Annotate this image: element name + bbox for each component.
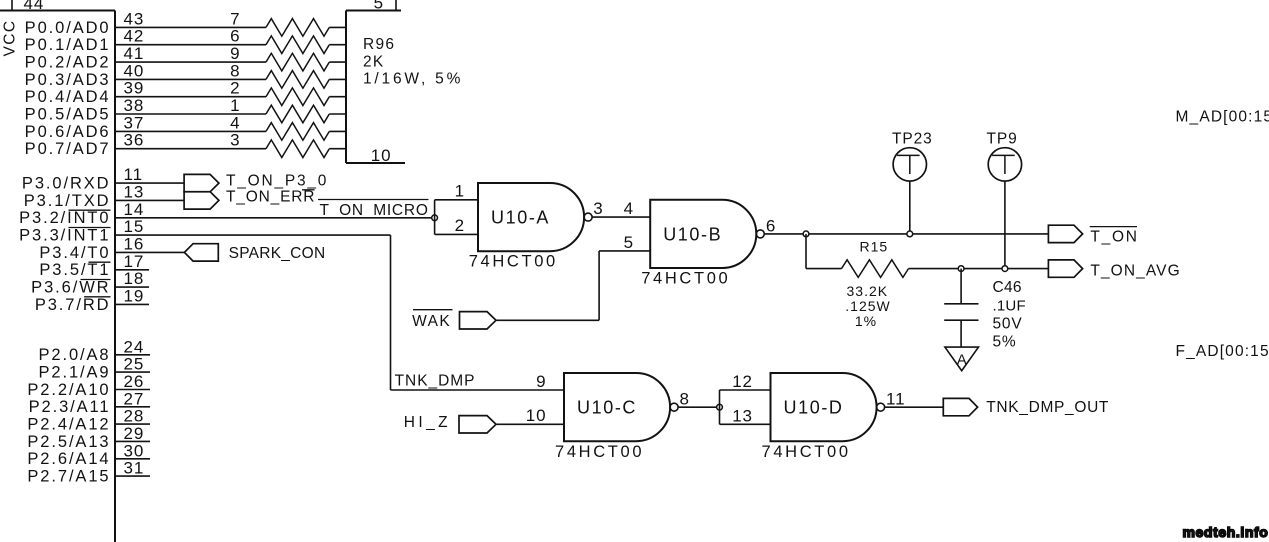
flag SPARK_CON [184,244,218,261]
junction node T_ON / R15 [803,231,809,237]
svg-text:17: 17 [124,252,145,271]
R96 pin number 9 [230,44,240,63]
svg-text:29: 29 [124,424,145,443]
wire TP23 to T_ON net [909,181,911,234]
pin name P2.1/A9 [38,364,110,382]
svg-text:10: 10 [371,146,392,165]
pin number 13 [124,182,145,201]
svg-text:.125W: .125W [845,298,890,314]
pin number 14 [124,200,145,219]
svg-text:16: 16 [124,234,145,253]
svg-text:8: 8 [680,390,690,409]
bus label M_AD[00:15] [1176,109,1269,126]
pin 44 wire (VCC) [11,0,13,11]
pin number 42 [124,27,145,46]
flag T_ON_P3_0 [184,174,219,191]
R15 value 33.2K [847,283,889,299]
R96 pin number 10 [371,146,392,165]
svg-text:7: 7 [230,9,240,28]
svg-text:12: 12 [732,372,753,391]
VCC pin name (rotated) [2,20,19,57]
pin number 18 [124,269,145,288]
pin name P3.5/T1 [39,261,110,279]
wire pin 42 to R96 [115,44,266,46]
svg-text:1%: 1% [855,313,877,329]
U10-B pin number 5 [624,233,634,252]
pin name P3.4/T0 [39,244,110,262]
svg-text:P2.2/A10: P2.2/A10 [27,381,110,399]
wire pin 11 to flag [115,182,184,184]
pin number 30 [124,441,145,460]
wire U10-A input branch [434,200,436,235]
svg-text:U10-A: U10-A [491,208,550,228]
bus label F_AD[00:15] [1176,343,1269,360]
wire pin 28 stub [115,423,150,425]
R15 reference label [860,239,889,255]
wire WAK to U10-B pin 5 [496,251,650,320]
pin name P0.4/AD4 [25,88,111,106]
pin number 17 [124,252,145,271]
pin name P2.2/A10 [27,381,110,399]
R96 pin number 2 [230,79,240,98]
wire pin 19 stub [115,303,149,305]
U10-D pin number 12 [732,372,753,391]
flag T_ON_AVG [1048,260,1082,277]
U10-A pin number 2 [455,216,465,235]
op U10-C NAND gate [564,373,670,441]
svg-text:R96: R96 [363,36,395,53]
R96 value 2K [363,53,385,70]
pin number 44 [24,0,45,13]
svg-text:13: 13 [124,182,145,201]
net label T_ON_ERR [226,189,315,206]
svg-text:2K: 2K [363,53,385,70]
R96 rating 1/16W, 5% [363,71,463,88]
svg-text:36: 36 [124,131,145,150]
svg-text:4: 4 [624,199,634,218]
U10-C designator [577,398,637,418]
net label TNK_DMP [395,373,476,390]
wire pin 13 to flag [115,199,184,201]
pin number 39 [124,79,145,98]
wire pin 39 to R96 [115,96,266,98]
svg-text:P0.4/AD4: P0.4/AD4 [25,88,111,106]
pin number 27 [124,389,145,408]
wire U10-D input branch [719,390,721,424]
svg-text:8: 8 [230,61,240,80]
wire pin 24 stub [115,354,150,356]
R96 reference label [363,36,395,53]
svg-text:50V: 50V [993,316,1023,333]
pin number 24 [124,337,145,356]
flag T_ON [1048,225,1082,242]
svg-text:39: 39 [124,79,145,98]
svg-text:R15: R15 [860,239,889,255]
wire pin 26 stub [115,389,150,391]
pin number 11 [124,165,143,184]
wire U10-C pin 8 to U10-D inputs [678,406,719,408]
wire R96 element 1 to body [329,113,346,115]
svg-text:A: A [957,352,967,369]
test point TP23 [893,148,926,181]
svg-text:37: 37 [124,113,145,132]
svg-text:P0.3/AD3: P0.3/AD3 [25,71,111,89]
svg-text:P2.4/A12: P2.4/A12 [27,416,110,434]
svg-text:15: 15 [124,217,145,236]
svg-text:P2.3/A11: P2.3/A11 [29,398,111,416]
svg-text:6: 6 [230,27,240,46]
svg-text:TP23: TP23 [892,130,933,147]
wire R96 element 3 to body [329,148,346,150]
U10-D part number 74HCT00 [762,443,851,461]
pin name P0.6/AD6 [25,123,111,141]
pin name P0.3/AD3 [25,71,111,89]
wire R96 element 2 to body [329,96,346,98]
pin name P2.5/A13 [27,433,110,451]
junction C46 [958,266,964,272]
pin name P0.0/AD0 [25,19,111,37]
wire U10-B pin 6 to T_ON flag [764,233,1048,235]
pin name P2.6/A14 [27,450,110,468]
svg-text:9: 9 [536,372,546,391]
resistor network R96 body (partial) [346,11,405,164]
pin name P0.5/AD5 [25,105,111,123]
svg-text:T_ON_ERR: T_ON_ERR [226,189,315,206]
op U10-B NAND gate [650,200,756,268]
svg-text:74HCT00: 74HCT00 [555,443,644,461]
wire pin 43 to R96 [115,26,266,28]
wire TP9 to T_ON_AVG net [1004,181,1006,269]
wire U10-A pin 2 stub [435,233,478,235]
svg-text:2: 2 [230,79,240,98]
R96 pin number 5 [374,0,384,13]
U10-C pin number 8 [680,390,690,409]
U10-D pin number 11 [886,390,905,409]
svg-text:P0.1/AD1: P0.1/AD1 [25,36,111,54]
pin number 16 [124,234,145,253]
svg-text:18: 18 [124,269,145,288]
svg-text:P0.0/AD0: P0.0/AD0 [25,19,111,37]
pin name P3.2/INT0 [19,209,110,227]
resistor R96 element 2 [266,88,329,106]
svg-text:1/16W, 5%: 1/16W, 5% [363,71,463,88]
pin number 37 [124,113,145,132]
pin number 19 [124,286,145,305]
resistor R96 element 4 [266,123,329,141]
pin number 38 [124,96,145,115]
wire R15 to T_ON_AVG flag [909,268,1049,270]
pin name P3.6/WR [31,279,110,297]
svg-text:5: 5 [374,0,384,13]
net label T_ON_P3_0 [226,173,328,190]
R96 pin number 1 [230,96,240,115]
C46 rating 50V [993,316,1023,333]
wire U10-A pin 1 stub [435,199,478,201]
TP23 label [892,130,933,147]
svg-text:3: 3 [230,131,240,150]
svg-text:T_ON_AVG: T_ON_AVG [1090,262,1180,279]
wire pin 29 stub [115,440,150,442]
op U10-D NAND gate [771,373,877,441]
wire U10-D pin 12 stub [720,389,771,391]
R15 tolerance 1% [855,313,877,329]
wire pin 38 to R96 [115,113,266,115]
svg-text:T_ON_P3_0: T_ON_P3_0 [226,173,328,190]
svg-text:44: 44 [24,0,45,13]
svg-text:41: 41 [124,44,145,63]
svg-text:M_AD[00:15: M_AD[00:15 [1176,109,1269,126]
svg-text:74HCT00: 74HCT00 [469,252,558,270]
svg-text:5: 5 [624,233,634,252]
resistor R15 [842,260,909,278]
pin number 15 [124,217,145,236]
U10-B designator [663,224,722,244]
U10-C pin number 10 [526,406,547,425]
svg-text:P3.6/WR: P3.6/WR [31,279,110,297]
pin number 31 [124,459,145,478]
svg-text:31: 31 [124,459,145,478]
svg-text:P2.5/A13: P2.5/A13 [27,433,110,451]
junction U10-D inputs [717,404,723,410]
svg-text:P2.7/A15: P2.7/A15 [27,468,110,486]
svg-text:9: 9 [230,44,240,63]
svg-text:P3.4/T0: P3.4/T0 [39,244,110,262]
svg-text:C46: C46 [993,279,1022,296]
svg-text:25: 25 [124,355,145,374]
wire pin 37 to R96 [115,130,266,132]
svg-text:10: 10 [526,406,547,425]
pin name P2.4/A12 [27,416,110,434]
svg-text:P3.5/T1: P3.5/T1 [39,261,110,279]
svg-text:33.2K: 33.2K [847,283,889,299]
R96 pin number 8 [230,61,240,80]
svg-text:3: 3 [593,199,603,218]
svg-text:42: 42 [124,27,145,46]
svg-text:F_AD[00:15: F_AD[00:15 [1176,343,1269,360]
test point TP9 [988,148,1021,181]
flag HI_Z [459,416,496,433]
svg-text:19: 19 [124,286,145,305]
svg-text:40: 40 [124,61,145,80]
svg-text:P0.7/AD7: P0.7/AD7 [25,140,111,158]
pin name P3.3/INT1 [19,227,110,245]
svg-text:43: 43 [124,9,145,28]
wire U10-D pin 11 to TNK_DMP_OUT flag [885,406,944,408]
wire U10-D pin 13 stub [720,423,771,425]
svg-text:14: 14 [124,200,145,219]
C46 reference label [993,279,1022,296]
wire R96 element 7 to body [329,26,346,28]
junction T_ON_MICRO to U10-A inputs [432,215,438,221]
wire junction down to R15 [806,234,842,269]
U10-C output bubble [670,403,678,411]
wire pin 41 to R96 [115,61,266,63]
pin number 28 [124,407,145,426]
analog ground symbol A [945,347,979,371]
svg-text:38: 38 [124,96,145,115]
wire pin 16 to flag [115,251,184,253]
svg-text:11: 11 [124,165,143,184]
svg-text:U10-C: U10-C [577,398,637,418]
svg-text:P3.2/INT0: P3.2/INT0 [19,209,110,227]
resistor R96 element 8 [266,71,329,89]
net label HI_Z [404,414,451,431]
svg-text:24: 24 [124,337,145,356]
svg-text:28: 28 [124,407,145,426]
wire C46 to analog ground [960,320,962,347]
pin name P3.7/RD [35,296,111,314]
svg-text:WAK: WAK [412,313,451,330]
svg-text:P2.6/A14: P2.6/A14 [27,450,110,468]
svg-text:U10-B: U10-B [663,224,722,244]
flag T_ON_ERR [184,192,219,209]
wire pin 18 stub [115,286,149,288]
pin name P2.0/A8 [38,346,110,364]
flag TNK_DMP_OUT [943,398,977,415]
pin number 36 [124,131,145,150]
U10-B part number 74HCT00 [641,269,730,287]
resistor R96 element 7 [266,19,329,37]
wire pin 14 T_ON_MICRO [115,217,435,219]
svg-text:1: 1 [455,182,465,201]
net label TNK_DMP_OUT [986,399,1109,416]
pin number 43 [124,9,145,28]
net label SPARK_CON [229,245,326,262]
wire R96 element 8 to body [329,78,346,80]
op U10-A NAND gate [478,183,584,251]
svg-text:SPARK_CON: SPARK_CON [229,245,326,262]
R96 pin number 4 [230,113,240,132]
U10-D pin number 13 [732,406,753,425]
U10-C part number 74HCT00 [555,443,644,461]
svg-text:TNK_DMP: TNK_DMP [395,373,476,390]
U10-B pin number 6 [766,216,776,235]
pin number 41 [124,44,145,63]
pin number 25 [124,355,145,374]
svg-text:1: 1 [230,96,240,115]
svg-text:T_ON: T_ON [1090,228,1138,245]
svg-text:P0.2/AD2: P0.2/AD2 [25,54,111,72]
svg-text:4: 4 [230,113,240,132]
wire pin 15 to TNK_DMP [115,235,564,390]
U10-B pin number 4 [624,199,634,218]
U10-C pin number 9 [536,372,546,391]
svg-text:.1UF: .1UF [993,297,1026,314]
R96 pin number 3 [230,131,240,150]
C46 value .1UF [993,297,1026,314]
U10-A output bubble [584,213,592,221]
net label T_ON_AVG [1090,262,1180,279]
wire pin 17 stub [115,269,149,271]
svg-text:2: 2 [455,216,465,235]
pin name P3.1/TXD [24,192,111,210]
wire junction to C46 [960,269,962,304]
svg-text:P2.1/A9: P2.1/A9 [38,364,110,382]
pin number 29 [124,424,145,443]
watermark medteh.info [1183,524,1269,540]
pin name P0.7/AD7 [25,140,111,158]
R15 rating .125W [845,298,890,314]
svg-text:27: 27 [124,389,145,408]
pin name P2.3/A11 [29,398,111,416]
svg-text:TNK_DMP_OUT: TNK_DMP_OUT [986,399,1109,416]
svg-text:P3.7/RD: P3.7/RD [35,296,111,314]
junction TP9 [1002,266,1008,272]
svg-text:6: 6 [766,216,776,235]
pin number 40 [124,61,145,80]
svg-text:74HCT00: 74HCT00 [641,269,730,287]
wire R96 element 9 to body [329,61,346,63]
wire U10-A pin 3 to U10-B pin 4 [592,216,650,218]
wire pin 25 stub [115,371,150,373]
wire pin 36 to R96 [115,148,266,150]
wire R96 element 6 to body [329,44,346,46]
svg-text:11: 11 [886,390,905,409]
svg-text:P2.0/A8: P2.0/A8 [38,346,110,364]
C46 tolerance 5% [993,334,1017,351]
svg-text:P0.5/AD5: P0.5/AD5 [25,105,111,123]
pin name P0.2/AD2 [25,54,111,72]
wire pin 27 stub [115,406,150,408]
svg-text:U10-D: U10-D [784,398,844,418]
wire pin 31 stub [115,475,150,477]
U10-D output bubble [877,403,885,411]
R96 pin number 6 [230,27,240,46]
resistor R96 element 9 [266,53,329,71]
svg-text:30: 30 [124,441,145,460]
R96 pin 5 wire [395,0,397,11]
net label T_ON_MICRO [318,200,429,219]
svg-text:T_ON_MICRO: T_ON_MICRO [320,202,429,219]
resistor R96 element 6 [266,36,329,54]
U10-A pin number 3 [593,199,603,218]
TP9 label [987,130,1018,147]
svg-text:P3.0/RXD: P3.0/RXD [22,175,111,193]
svg-text:HI_Z: HI_Z [404,414,451,431]
resistor R96 element 1 [266,105,329,123]
svg-text:26: 26 [124,372,145,391]
pin name P2.7/A15 [27,468,110,486]
pin name P3.0/RXD [22,175,111,193]
net label WAK [412,310,452,330]
svg-text:medteh.info: medteh.info [1183,524,1269,540]
svg-text:13: 13 [732,406,753,425]
flag WAK [460,312,497,329]
wire pin 30 stub [115,458,150,460]
wire HI_Z to U10-C pin 10 [496,423,564,425]
svg-text:5%: 5% [993,334,1017,351]
svg-text:P3.3/INT1: P3.3/INT1 [19,227,110,245]
pin name P0.1/AD1 [25,36,111,54]
svg-text:P0.6/AD6: P0.6/AD6 [25,123,111,141]
resistor R96 element 3 [266,140,329,158]
wire R96 element 4 to body [329,130,346,132]
svg-text:TP9: TP9 [987,130,1018,147]
svg-text:74HCT00: 74HCT00 [762,443,851,461]
IC U1 microcontroller body (partial) [0,11,115,542]
U10-A pin number 1 [455,182,465,201]
pin number 26 [124,372,145,391]
net label T_ON [1090,227,1139,246]
U10-D designator [784,398,844,418]
junction TP23 [907,231,913,237]
wire pin 40 to R96 [115,78,266,80]
capacitor C46 [944,304,978,320]
svg-text:VCC: VCC [2,20,19,57]
U10-B output bubble [756,230,764,238]
svg-text:P3.1/TXD: P3.1/TXD [24,192,111,210]
U10-A designator [491,208,550,228]
